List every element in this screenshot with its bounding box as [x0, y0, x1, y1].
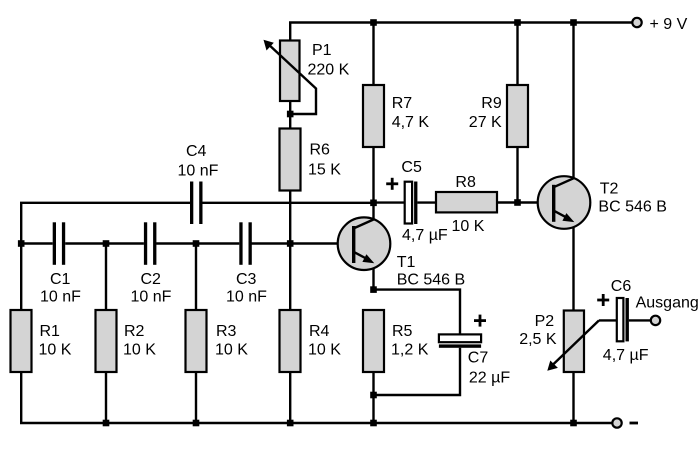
resistor R2 [96, 310, 117, 372]
svg-text:4,7 µF: 4,7 µF [603, 347, 649, 364]
wire ladder C1 left lead [21, 242, 53, 244]
resistor R8 [436, 192, 497, 212]
capacitor C4 [190, 182, 203, 225]
wire ladder C2 to C3 [156, 242, 239, 244]
wire R7 bottom lead to collector node [372, 147, 374, 203]
svg-text:C3: C3 [236, 271, 257, 288]
wire ladder C3 to T1 base [252, 242, 354, 244]
svg-text:R7: R7 [392, 95, 413, 112]
wire R7 top lead [372, 23, 374, 86]
terminal minus [612, 418, 621, 427]
capacitor C5 [405, 182, 418, 225]
svg-text:10 K: 10 K [215, 342, 248, 359]
wire T1 emitter lead [372, 262, 374, 290]
node top rail / T2 collector [570, 19, 577, 26]
wire top rail [289, 21, 632, 23]
P1 wiper arrow [264, 40, 317, 114]
C6 polarity plus [597, 294, 609, 306]
transistor T1 [338, 217, 391, 270]
capacitor C1 [53, 222, 66, 264]
P2 wiper arrow [547, 320, 599, 370]
node bottom rail / R2 [103, 420, 110, 427]
svg-text:R8: R8 [455, 174, 476, 191]
svg-text:T2: T2 [600, 180, 619, 197]
wire C6 right lead to output terminal [629, 319, 651, 321]
capacitor C6 [617, 298, 629, 341]
svg-text:10 nF: 10 nF [226, 289, 267, 306]
wire C5 left lead [374, 201, 405, 203]
svg-text:10 K: 10 K [123, 342, 156, 359]
terminal +9V [632, 18, 641, 27]
wire C5 right lead [417, 201, 436, 203]
svg-text:27 K: 27 K [469, 114, 502, 131]
node top rail / R7 [370, 19, 377, 26]
svg-text:10 K: 10 K [39, 342, 72, 359]
node ladder C2 / C3 / R3 [193, 240, 200, 247]
terminal output Ausgang [651, 316, 660, 325]
svg-text:4,7 K: 4,7 K [392, 114, 430, 131]
node ladder C1 / R1 [18, 240, 25, 247]
wire R5 bottom lead [372, 372, 374, 423]
node bottom rail / R3 [193, 420, 200, 427]
svg-text:C5: C5 [401, 159, 422, 176]
capacitor C3 [239, 222, 252, 264]
potentiometer P1 [280, 41, 300, 102]
wire P1 top lead [289, 22, 291, 41]
node bottom rail / P2 [570, 420, 577, 427]
node P1 wiper / R6 [287, 111, 294, 118]
capacitor C7 [439, 334, 481, 347]
wire R9 top lead [516, 23, 518, 86]
resistor R1 [11, 310, 32, 372]
wire R2 top lead [105, 244, 107, 311]
wire R3 bottom lead [195, 372, 197, 423]
svg-text:C7: C7 [468, 350, 489, 367]
wire emitter node to C7 top [374, 290, 461, 335]
svg-text:2,5 K: 2,5 K [519, 331, 557, 348]
capacitor C2 [144, 222, 157, 264]
node T1 emitter / R5 / C7 [370, 286, 377, 293]
svg-text:P1: P1 [312, 42, 332, 59]
resistor R4 [280, 310, 301, 372]
svg-text:BC 546 B: BC 546 B [598, 198, 666, 215]
svg-text:15 K: 15 K [308, 162, 341, 179]
wire R8 right lead [497, 201, 518, 203]
svg-text:C2: C2 [141, 271, 162, 288]
svg-text:R5: R5 [392, 323, 413, 340]
svg-text:1,2 K: 1,2 K [391, 342, 429, 359]
node bottom rail / R4 [287, 420, 294, 427]
wire R2 bottom lead [105, 372, 107, 423]
svg-text:10 nF: 10 nF [131, 289, 172, 306]
svg-text:T1: T1 [397, 254, 416, 271]
wire T2 base lead [518, 201, 554, 203]
svg-text:R2: R2 [124, 323, 145, 340]
svg-text:+ 9 V: + 9 V [650, 16, 688, 33]
wire R3 top lead [195, 244, 197, 311]
svg-text:P2: P2 [535, 313, 555, 330]
svg-text:10 K: 10 K [452, 218, 485, 235]
wire T2 emitter lead [572, 221, 574, 311]
wire T2 collector lead [572, 23, 574, 180]
svg-text:220 K: 220 K [308, 61, 350, 78]
svg-text:R3: R3 [216, 323, 237, 340]
svg-text:10 K: 10 K [308, 342, 341, 359]
resistor R3 [186, 310, 207, 372]
wire R6 to R4 column [289, 190, 291, 310]
transistor T2 [538, 176, 591, 229]
svg-text:BC 546 B: BC 546 B [397, 271, 465, 288]
svg-text:22 µF: 22 µF [469, 370, 510, 387]
wire P2 bottom lead [572, 372, 574, 423]
node top rail / R9 [514, 19, 521, 26]
wire T1 collector lead [372, 203, 374, 221]
node T1 collector / C4 / C5 [370, 200, 377, 207]
potentiometer P2 [564, 311, 584, 373]
wire R9 bottom lead [516, 147, 518, 203]
svg-text:10 nF: 10 nF [40, 289, 81, 306]
wire R1 bottom lead [20, 372, 22, 423]
C7 polarity plus [474, 315, 486, 327]
wire P2 wiper to C6 [599, 319, 617, 321]
wire C7 bottom return [374, 348, 461, 395]
resistor R6 [280, 129, 301, 191]
wire R4 bottom lead [289, 372, 291, 423]
svg-text:C6: C6 [611, 278, 632, 295]
resistor R5 [363, 310, 384, 372]
svg-text:R9: R9 [481, 95, 502, 112]
svg-text:R4: R4 [309, 323, 330, 340]
svg-text:10 nF: 10 nF [178, 162, 219, 179]
node ladder C1 / C2 / R2 [103, 240, 110, 247]
resistor R7 [363, 85, 384, 147]
node R5 bottom / C7 return [370, 392, 377, 399]
wire feedback right segment to collector node [202, 202, 373, 204]
node ladder C3 / R4 / T1 base [287, 240, 294, 247]
label minus [630, 422, 639, 425]
node bottom rail / R5 [370, 420, 377, 427]
resistor R9 [507, 85, 528, 147]
svg-text:4,7 µF: 4,7 µF [402, 227, 448, 244]
wire ladder C1 to C2 [65, 242, 144, 244]
svg-text:C4: C4 [186, 143, 207, 160]
svg-text:C1: C1 [50, 271, 71, 288]
C5 polarity plus [386, 178, 398, 190]
svg-text:R6: R6 [310, 142, 331, 159]
svg-text:Ausgang: Ausgang [636, 295, 699, 312]
node R8 / R9 / T2 base [514, 199, 521, 206]
wire bottom rail [20, 422, 612, 424]
svg-text:R1: R1 [40, 323, 61, 340]
wire P1 bottom to R6 top [289, 100, 291, 130]
wire feedback left segment with corner to R1 [21, 203, 190, 310]
